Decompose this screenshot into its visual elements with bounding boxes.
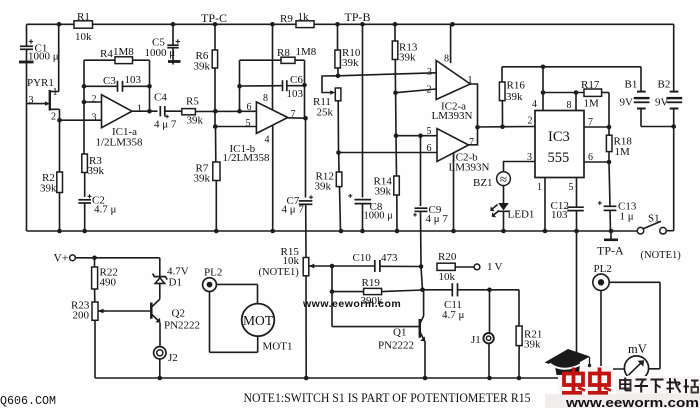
capacitor C9 [413,136,448,225]
resistor R16 [499,67,525,127]
capacitor C5 [145,24,181,64]
svg-text:2: 2 [427,84,432,95]
transistor Q1 [332,290,425,378]
svg-text:103: 103 [551,209,568,221]
wire left rail [26,24,28,231]
svg-text:7: 7 [588,117,593,128]
resistor R19 [332,277,423,307]
node TP-A [597,231,624,258]
node pin3 comparator [336,74,341,79]
op-amp U-IC3 555 timer [535,111,584,178]
capacitor C11 [423,283,490,321]
node pin5 IC2-b [394,133,399,138]
svg-text:4 μ 7: 4 μ 7 [154,119,177,131]
svg-text:10k: 10k [439,271,456,283]
svg-text:25k: 25k [317,107,334,119]
svg-text:C6: C6 [290,74,303,86]
watermark cap [545,349,592,375]
svg-text:MOT1: MOT1 [263,341,293,353]
battery B1 [620,67,674,127]
svg-text:5: 5 [569,182,574,193]
wire IC3 pin4 [532,67,545,111]
wire IC1-a output [132,109,158,114]
svg-text:(NOTE1): (NOTE1) [259,267,300,278]
node R5-R6 [213,109,218,114]
resistor R7 [194,127,221,232]
svg-text:9V: 9V [655,97,669,109]
svg-text:≈: ≈ [500,172,507,187]
svg-text:2: 2 [528,116,533,127]
potentiometer R11 [313,76,341,153]
wire R13-R14 [395,93,397,136]
svg-text:NOTE1:SWITCH S1 IS PART OF P: NOTE1:SWITCH S1 IS PART OF POTENTIOMETER… [244,391,531,405]
svg-text:PN2222: PN2222 [378,340,414,352]
wire C7 to R15 [305,204,307,258]
watermark backdrop [545,366,700,408]
wire IC1 gnd pin4 [272,125,274,231]
svg-text:2: 2 [51,112,56,123]
note site [0,395,56,408]
connector J1 [471,290,494,378]
capacitor C2 [78,194,116,231]
svg-text:1000 μ: 1000 μ [28,51,59,63]
wire IC3 pin1 [537,178,545,232]
node 1V terminal [474,261,504,273]
wire pin3 IC1-a [60,119,102,121]
resistor R14 [374,136,400,231]
transistor PYR1 [27,24,60,122]
wire bottom bus [95,377,577,379]
svg-text:1V: 1V [487,261,504,273]
wire pin5 IC2-b [396,133,437,138]
resistor R2 [40,120,63,231]
capacitor C8 [348,24,393,231]
svg-text:8: 8 [567,100,572,111]
wire R15 wiper node [315,264,375,269]
svg-text:4.7 μ: 4.7 μ [442,309,465,321]
node pin2 IC2-a [393,90,398,95]
svg-text:10k: 10k [283,255,300,267]
svg-text:3: 3 [92,113,97,124]
svg-text:R5: R5 [186,96,199,108]
transistor Q2 [151,299,200,347]
svg-text:39k: 39k [506,91,523,103]
node J1 top [487,288,492,293]
svg-text:Q2: Q2 [172,308,185,320]
wire V+ feed [75,255,159,260]
wire pin5 IC1-b [213,124,256,129]
svg-text:Q1: Q1 [393,327,406,339]
wire ground bus [27,230,638,232]
connector PL2 motor [203,267,223,292]
svg-text:1: 1 [537,182,542,193]
op-amp IC1-b [223,93,296,164]
wire pin3 IC2-a [338,73,436,76]
resistor R4 [84,46,150,111]
resistor R20 [437,251,474,283]
svg-text:R17: R17 [581,79,600,91]
op-amp IC1-a [92,94,144,149]
svg-text:555: 555 [548,150,570,166]
diode D1 zener [153,258,189,299]
svg-text:Q606.COM: Q606.COM [0,395,56,408]
svg-text:103: 103 [287,88,304,100]
svg-text:IC3: IC3 [548,129,570,145]
svg-text:LM393N: LM393N [432,110,473,122]
capacitor C3 [84,74,152,92]
wire R17 feed [543,90,584,95]
svg-text:LED1: LED1 [508,209,535,221]
svg-text:R9: R9 [280,13,293,25]
battery B2 [655,24,682,230]
svg-text:39k: 39k [315,181,332,193]
svg-text:1/2LM358: 1/2LM358 [96,137,144,149]
resistor R17 [581,79,609,127]
svg-text:1/2LM358: 1/2LM358 [223,152,271,164]
svg-text:R16: R16 [507,80,526,92]
capacitor C12 [551,200,584,231]
resistor R13 [392,24,418,92]
svg-text:R1: R1 [77,11,90,23]
wire top rail [27,23,674,25]
wire IC3 pin5 [569,178,577,208]
svg-text:TP-A: TP-A [597,244,624,258]
capacitor C13 [598,162,637,231]
watermark chongchong [562,368,611,393]
svg-text:473: 473 [381,252,398,264]
svg-text:6: 6 [427,143,432,154]
node rail junctions [57,22,455,27]
svg-text:8: 8 [263,93,268,104]
resistor R3 [82,154,105,197]
wire to R21 [490,290,520,326]
wire PL2 to motor [216,284,257,303]
svg-text:4.7 μ: 4.7 μ [94,204,117,216]
svg-text:BZ1: BZ1 [473,177,493,189]
svg-text:LM393N: LM393N [449,162,490,174]
svg-text:5: 5 [246,118,251,129]
connector J2 [154,347,178,378]
svg-text:6: 6 [247,102,252,113]
svg-text:1k: 1k [298,11,310,23]
svg-text:R19: R19 [362,277,381,289]
svg-text:103: 103 [125,74,142,86]
svg-text:7: 7 [469,137,474,148]
svg-text:4 μ 7: 4 μ 7 [282,204,305,216]
resistor R6 [194,24,218,126]
watermark site name [620,378,699,394]
node TP-B [345,10,371,24]
svg-text:2: 2 [92,94,97,105]
wire IC3 pin6 [584,152,611,164]
node A [57,118,62,123]
wire IC3 pin8 [567,93,577,112]
diode LED1 [490,186,534,232]
svg-text:39k: 39k [187,115,204,127]
op-amp IC2-a [427,24,473,122]
svg-text:R8: R8 [277,47,290,59]
wire PL2 down [601,291,624,370]
svg-text:1M: 1M [615,146,631,158]
switch S1 [637,213,681,262]
note bottom [244,391,531,405]
svg-text:B2: B2 [658,79,671,91]
svg-text:39k: 39k [342,57,359,69]
wire C9 down [420,211,423,266]
capacitor C10 [353,252,424,272]
connector PL2 meter [593,263,612,290]
wire C10-R19 riser [420,267,425,293]
svg-text:39k: 39k [88,165,105,177]
svg-text:B1: B1 [625,79,638,91]
svg-text:MOT: MOT [243,313,274,328]
wire IC3 pin2 label [528,116,533,127]
svg-text:PL2: PL2 [204,267,222,279]
svg-text:1M: 1M [584,98,600,110]
svg-text:www.eeworm.com: www.eeworm.com [302,298,401,310]
node TP-C [201,11,227,25]
wire pin2 IC1-a [84,101,102,103]
svg-text:4: 4 [265,135,270,146]
svg-text:490: 490 [100,277,117,289]
resistor R12 [315,153,342,232]
wire IC2 gnd [453,154,455,231]
wire comparator to IC3 pin2 [478,125,536,130]
capacitor C4 [154,92,182,131]
svg-text:1M8: 1M8 [113,46,134,58]
svg-text:TP-B: TP-B [345,10,371,24]
wire IC3 pin3 [504,152,536,172]
wire wiper riser [330,266,335,327]
wire IC1 power pin8 [272,24,274,110]
potentiometer R15 [259,246,315,378]
svg-text:39k: 39k [399,52,416,64]
svg-text:10k: 10k [75,31,92,43]
svg-text:39k: 39k [40,183,57,195]
wire IC1-b output [288,86,308,121]
wire IC2 outputs [469,84,480,145]
svg-text:39k: 39k [375,186,392,198]
wire pin6 IC2-b [339,152,438,154]
wire IC3 pin7 [584,117,611,129]
svg-text:C3: C3 [103,75,116,87]
svg-text:PYR1: PYR1 [27,77,54,89]
watermark faint [302,298,401,310]
svg-text:3: 3 [29,95,34,106]
svg-text:1000 μ: 1000 μ [364,211,394,222]
motor MOT1 [210,292,293,353]
svg-text:V+: V+ [54,253,69,265]
svg-text:R20: R20 [438,251,457,263]
svg-text:C10: C10 [353,252,372,264]
node pin6 comparator [336,150,341,155]
capacitor C7 [282,118,314,215]
potentiometer R23 [71,300,106,379]
capacitor C1 [19,39,59,62]
wire pin2 IC2-a [396,89,437,93]
svg-text:PL2: PL2 [594,263,612,275]
node battery minus [671,124,676,129]
capacitor C6 [237,74,307,100]
svg-text:S1: S1 [648,213,660,225]
watermark url [565,395,699,408]
svg-text:9V: 9V [620,97,634,109]
node bus junctions [57,229,613,234]
wire IC1-a feedback node [82,60,87,154]
svg-text:6: 6 [588,152,593,163]
svg-text:1: 1 [137,104,142,115]
buzzer BZ1 [473,172,510,190]
svg-text:5: 5 [427,126,432,137]
svg-text:200: 200 [73,310,90,322]
svg-text:mV: mV [628,342,647,356]
svg-text:39k: 39k [524,339,541,351]
meter mV [624,342,648,380]
resistor R21 [516,326,542,378]
svg-text:1000 μ: 1000 μ [145,47,176,59]
wire Q2 base [106,310,151,312]
node bottom bus junctions [158,376,522,381]
svg-text:J2: J2 [168,352,178,364]
svg-text:39k: 39k [194,173,211,185]
svg-text:4 μ 7: 4 μ 7 [426,213,449,225]
svg-text:(NOTE1): (NOTE1) [641,250,682,261]
svg-text:1: 1 [53,87,58,98]
svg-text:8: 8 [444,54,449,65]
resistor R10 [335,24,361,76]
node R8-pin6 [237,109,242,114]
resistor R8 [240,46,317,111]
resistor R5 [182,96,257,127]
node V+ terminal [54,253,76,265]
svg-text:TP-C: TP-C [201,11,227,25]
svg-text:D1: D1 [169,277,182,289]
svg-text:C4: C4 [154,92,167,104]
svg-text:39k: 39k [194,61,211,73]
svg-text:3: 3 [427,67,432,78]
wire ground riser [576,231,578,378]
svg-text:J1: J1 [471,334,481,346]
resistor R1 [74,11,93,43]
resistor R9 [280,11,314,28]
svg-text:PN2222: PN2222 [164,320,200,332]
svg-text:1 μ: 1 μ [620,211,634,223]
resistor R22 [92,258,118,302]
svg-text:www.eeworm.com: www.eeworm.com [565,395,699,408]
wire PL2 right [609,282,660,369]
wire V+ rail [502,65,641,70]
resistor R18 [606,127,632,162]
op-amp IC2-b [427,126,490,174]
svg-text:4: 4 [532,99,537,110]
svg-text:1M8: 1M8 [296,46,317,58]
svg-text:R4: R4 [100,48,113,60]
